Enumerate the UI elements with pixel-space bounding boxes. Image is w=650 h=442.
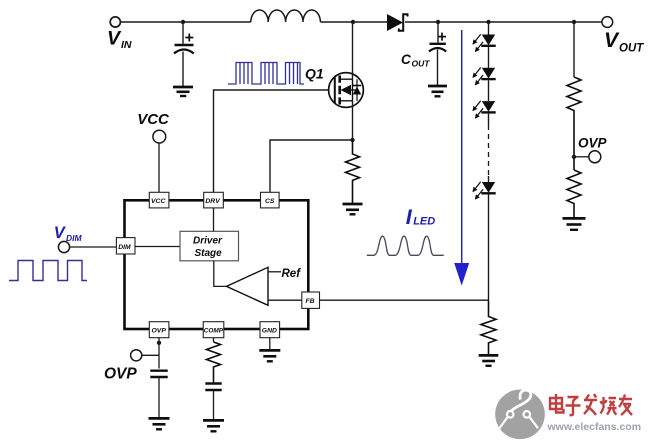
- terminal VOUT: [602, 17, 613, 28]
- LED D4: [473, 101, 496, 118]
- inductor L1: [251, 10, 321, 22]
- wire diode to VOUT: [405, 21, 602, 23]
- wire input cap: [182, 22, 184, 44]
- wire: [488, 47, 490, 68]
- svg-text:VCC: VCC: [151, 198, 165, 205]
- pin DRV: [204, 192, 224, 208]
- pin CS: [261, 192, 280, 208]
- wire driver stage to comparator: [214, 261, 227, 287]
- wire VDIM to DIM: [70, 246, 117, 248]
- svg-text:CS: CS: [265, 198, 275, 205]
- wire FB to LED string: [320, 299, 489, 301]
- node source sense junction: [350, 138, 354, 142]
- terminal OVP right: [589, 151, 601, 163]
- svg-text:IN: IN: [121, 39, 132, 51]
- node input cap junction: [181, 20, 185, 24]
- capacitor Ccomp: [205, 384, 221, 421]
- ground OVP cap: [149, 418, 170, 429]
- pin DIM: [116, 238, 135, 254]
- svg-text:V: V: [604, 29, 620, 52]
- node LED string junction: [486, 20, 490, 24]
- svg-text:VCC: VCC: [137, 111, 170, 128]
- wire OVP pin down: [158, 338, 160, 369]
- terminal OVP left: [131, 350, 142, 361]
- svg-text:OVP: OVP: [578, 136, 608, 151]
- wire DIM to driver stage: [135, 246, 180, 248]
- node OVP pin junction: [157, 341, 161, 345]
- svg-text:OVP: OVP: [104, 366, 137, 383]
- arrow ILED: [454, 30, 469, 286]
- ground Rled: [479, 355, 499, 365]
- op-amp comparator: [227, 267, 269, 305]
- terminal VCC: [153, 130, 166, 143]
- svg-text:COMP: COMP: [204, 328, 224, 335]
- ground input cap: [173, 87, 193, 96]
- svg-text:DRV: DRV: [205, 198, 221, 205]
- watermark CJK text: [550, 394, 632, 415]
- diode D1 schottky: [387, 14, 408, 31]
- svg-text:LED: LED: [413, 216, 435, 228]
- wire Ref: [268, 271, 281, 273]
- svg-text:Driver: Driver: [193, 236, 223, 247]
- ground COUT: [428, 86, 447, 96]
- pin FB: [302, 292, 320, 308]
- wire OVP tap to terminal: [574, 156, 589, 158]
- LED string wire top: [488, 22, 490, 35]
- wire inductor to diode: [320, 21, 387, 23]
- wire COUT: [437, 22, 439, 43]
- wire: [488, 176, 490, 182]
- terminal VDIM: [58, 241, 69, 252]
- wire GND down: [269, 338, 271, 350]
- svg-text:DIM: DIM: [66, 233, 83, 243]
- wire CS to source: [270, 140, 353, 193]
- wire comparator to FB: [268, 299, 302, 301]
- watermark logo circle: [495, 390, 545, 440]
- svg-text:www.elecfans.com: www.elecfans.com: [547, 421, 642, 433]
- svg-text:V: V: [107, 28, 122, 50]
- IC U1 body: [125, 200, 309, 329]
- wire: [488, 114, 490, 125]
- svg-text:Ref: Ref: [282, 268, 302, 280]
- waveform VDIM PWM: [9, 261, 87, 281]
- pin OVP: [149, 322, 169, 338]
- wire DRV to driver stage: [213, 208, 215, 231]
- svg-text:OUT: OUT: [619, 43, 644, 55]
- pin COMP: [203, 322, 224, 338]
- capacitor COUT electrolytic: [429, 33, 446, 86]
- waveform ILED: [367, 236, 444, 255]
- ground OVP divider: [563, 218, 586, 229]
- ground Rsense: [343, 204, 363, 214]
- OVP divider wire: [573, 22, 575, 77]
- pin VCC: [149, 192, 169, 208]
- svg-text:DIM: DIM: [118, 244, 131, 251]
- wire: [488, 80, 490, 101]
- resistor Rovp1: [567, 77, 581, 170]
- transistor Q1 MOSFET: [329, 23, 364, 140]
- wire dashed LED string: [488, 125, 490, 176]
- node OVP tap: [572, 155, 576, 159]
- node MOSFET drain junction: [351, 20, 355, 24]
- ground GND pin: [259, 350, 280, 361]
- waveform Q1 gate PWM: [228, 63, 304, 85]
- svg-text:Q1: Q1: [305, 66, 324, 82]
- node OVP divider junction: [572, 20, 576, 24]
- capacitor OVP: [150, 371, 167, 418]
- node COUT junction: [436, 20, 440, 24]
- svg-text:I: I: [406, 205, 413, 229]
- ground COMP: [203, 420, 224, 431]
- pin GND: [260, 322, 280, 338]
- svg-text:OVP: OVP: [152, 328, 167, 335]
- resistor Rovp2: [567, 170, 581, 218]
- wire VCC terminal: [158, 143, 160, 193]
- resistor Rled: [481, 301, 496, 356]
- svg-text:GND: GND: [262, 328, 277, 335]
- svg-text:Stage: Stage: [195, 248, 223, 259]
- block driver stage: [180, 231, 239, 260]
- LED D2: [473, 34, 496, 51]
- resistor Rsense: [346, 140, 360, 204]
- svg-text:OUT: OUT: [412, 59, 431, 69]
- wire top rail left: [121, 21, 251, 23]
- resistor Rcomp: [207, 342, 221, 383]
- wire gate from DRV: [214, 90, 335, 193]
- svg-text:C: C: [401, 52, 411, 67]
- capacitor C1 input electrolytic: [174, 34, 194, 88]
- wire COMP down: [213, 338, 215, 342]
- wire OVP terminal: [142, 354, 159, 356]
- LED D3: [473, 68, 496, 85]
- svg-text:FB: FB: [306, 298, 315, 305]
- terminal VIN: [110, 17, 120, 27]
- LED D5: [473, 182, 496, 199]
- wire LED string bottom: [488, 195, 490, 301]
